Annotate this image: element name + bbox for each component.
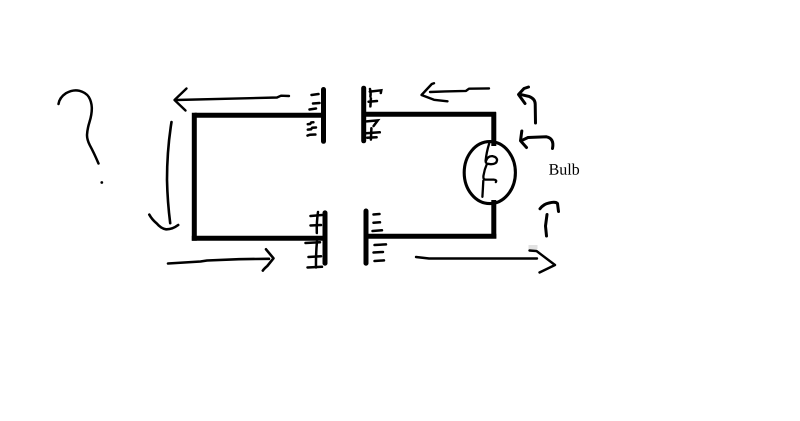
curved arrow mid-right (pointing left) xyxy=(521,131,553,149)
current arrow top-left (pointing left) xyxy=(175,89,290,111)
wire top-right horizontal xyxy=(365,112,496,117)
capacitor C1 right plate xyxy=(361,88,366,141)
C1 right plate positive charges xyxy=(366,89,382,140)
curved arrow left (pointing down) xyxy=(149,122,178,229)
bulb B1 filament xyxy=(482,144,497,197)
curved arrow lower-right (pointing up) xyxy=(540,202,559,236)
capacitor C2 left plate xyxy=(323,213,328,263)
capacitor C2 right plate xyxy=(364,211,369,263)
wire top-left horizontal xyxy=(195,113,322,118)
C2 left plate positive charges xyxy=(306,212,323,268)
wire bottom-right horizontal xyxy=(366,234,496,239)
wire bottom-left horizontal xyxy=(192,236,323,241)
current arrow top-middle (pointing left) xyxy=(422,83,490,101)
question-mark squiggle top-left xyxy=(59,90,99,163)
capacitor C1 left plate xyxy=(321,90,326,142)
C1 left plate negative charges xyxy=(308,94,320,136)
current arrow bottom-left (pointing right) xyxy=(168,249,274,270)
current arrow bottom-right (pointing right) xyxy=(416,251,555,273)
stray dot xyxy=(100,181,103,184)
eraser smudge xyxy=(529,245,538,249)
label Bulb xyxy=(549,164,579,175)
wire left vertical xyxy=(192,113,197,241)
curved arrow upper-right (pointing up-left) xyxy=(519,87,536,123)
wire right vertical lower (from bulb) xyxy=(491,200,496,239)
bulb B1 envelope xyxy=(464,142,515,204)
wire right vertical upper (to bulb) xyxy=(491,112,496,146)
C2 right plate negative charges xyxy=(373,214,387,261)
